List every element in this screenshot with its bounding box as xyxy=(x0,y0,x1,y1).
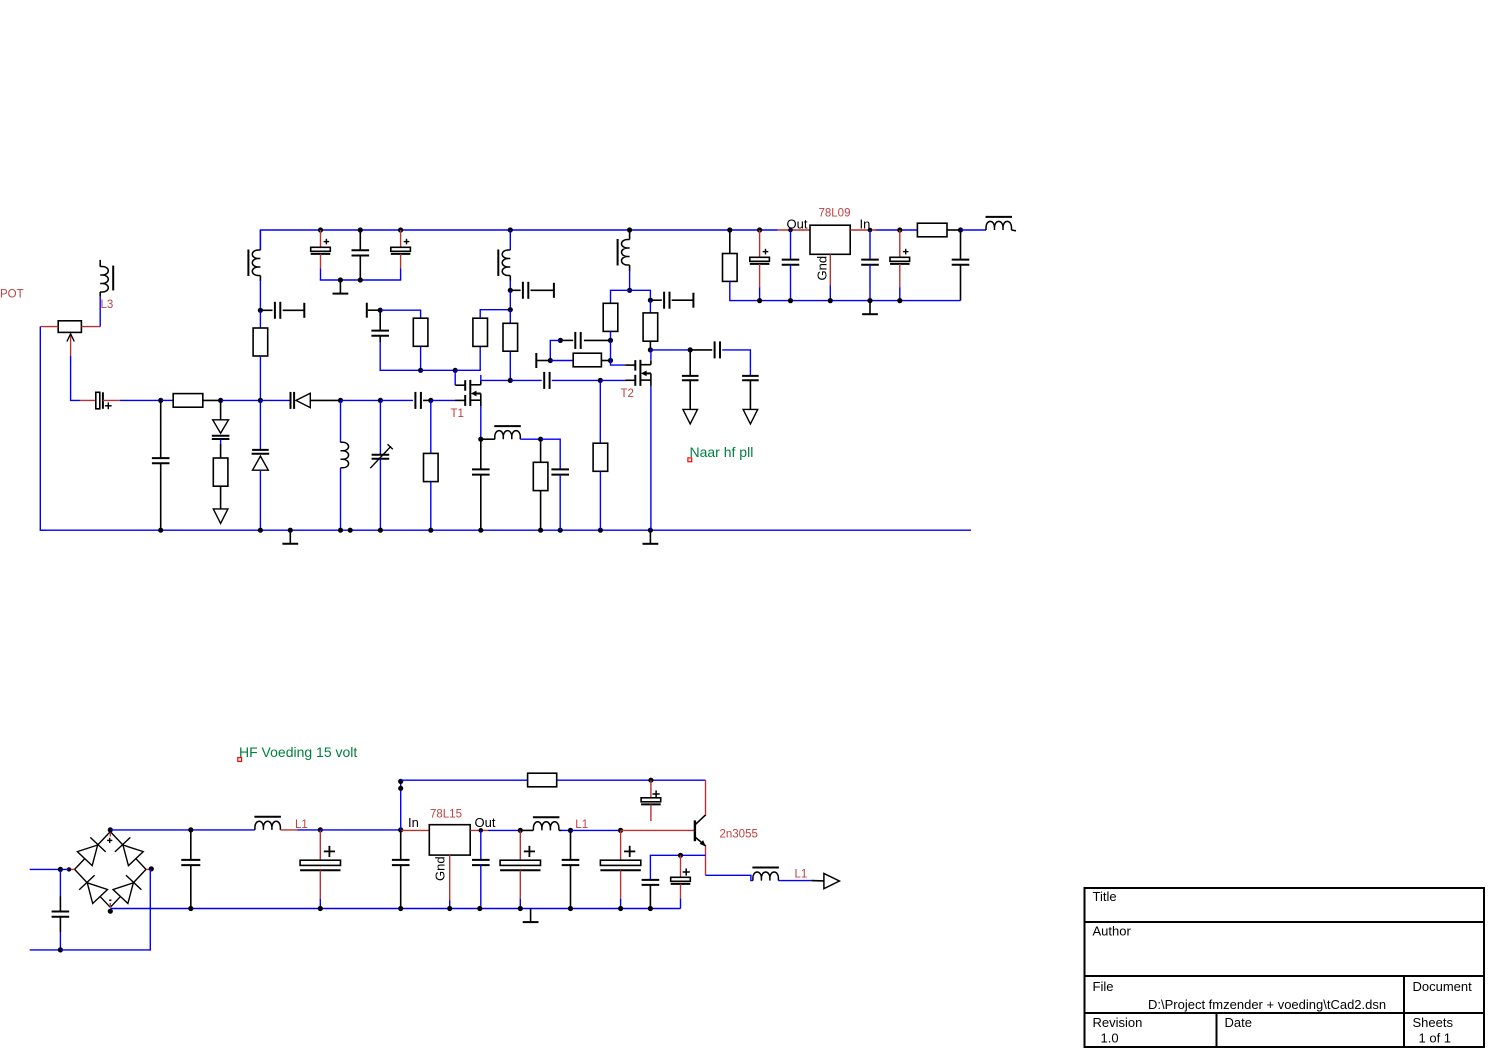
junction interstage / R bias2 xyxy=(598,378,603,383)
label L1 c xyxy=(795,869,808,881)
wire L osc bottom to node xyxy=(259,276,261,311)
junction T1 drain / R drain1 xyxy=(508,378,513,383)
junction regbottom / C reg4 xyxy=(897,298,902,303)
junction psu gnd / Gnd xyxy=(447,906,452,911)
lead C reg5 top xyxy=(960,230,962,260)
lead L osc top xyxy=(259,230,261,250)
junction bus / R osc xyxy=(258,398,263,403)
plus sign C outpsu xyxy=(683,868,690,875)
title block Document xyxy=(1413,979,1473,994)
lead C2 bottom xyxy=(359,256,361,281)
capacitor C probe1 xyxy=(275,302,280,319)
junction L1b / C f5 xyxy=(568,828,573,833)
inductor L1 (output choke) xyxy=(533,817,560,830)
junction bias2 bottom-left xyxy=(548,358,553,363)
wire pot-left long vertical xyxy=(40,327,46,531)
junction trio-bottom / ground xyxy=(338,277,343,282)
bottom ground rail xyxy=(40,529,971,531)
resistor R drain2 lower xyxy=(593,443,608,471)
lead C probe3 left xyxy=(650,299,661,301)
pin label Out psu xyxy=(475,815,496,830)
title block sheets value xyxy=(1419,1031,1452,1046)
inductor L choke T2 xyxy=(618,239,630,266)
junction bridge bottom xyxy=(108,909,113,914)
varicap diode D tune (horizontal) xyxy=(291,392,311,409)
wire In node up xyxy=(400,780,402,830)
lead C probe1 left xyxy=(260,309,272,311)
svg-text:1 of 1: 1 of 1 xyxy=(1419,1031,1452,1046)
junction psu gnd / C f5 xyxy=(568,906,573,911)
bridge minus mark xyxy=(109,899,111,901)
emitter output wire xyxy=(706,875,753,880)
output arrow xyxy=(824,873,840,888)
wire bus seg3 xyxy=(221,399,261,401)
lead C mains top xyxy=(59,869,61,911)
plus sign C f6 xyxy=(624,846,635,857)
junction source / L src xyxy=(478,437,483,442)
wire bus seg7 xyxy=(380,399,413,401)
psu ground rail xyxy=(110,908,680,910)
svg-text:Title: Title xyxy=(1093,889,1117,904)
title block frame xyxy=(1085,888,1485,1047)
wire T2 drain stub xyxy=(650,350,652,360)
label L1 b xyxy=(575,819,588,831)
svg-text:In: In xyxy=(408,815,419,830)
lead C trim top xyxy=(379,400,381,454)
junction bridge top xyxy=(108,827,113,832)
lead L3choke top xyxy=(629,230,631,240)
pin label Gnd (rotated) xyxy=(815,256,830,281)
lead C src1 top xyxy=(480,439,482,469)
resistor R drain T2 xyxy=(643,313,658,341)
junction bias2 node xyxy=(608,338,613,343)
lead C reg-elco1 bottom xyxy=(759,264,761,301)
junction bottom rail / R drain2 xyxy=(598,528,603,533)
lead elco byp bottom (dangling) xyxy=(650,804,652,821)
lead elco1 bottom + bend xyxy=(320,254,322,280)
lead R drain-T2 top xyxy=(649,300,651,313)
wire bias1 right-down xyxy=(380,310,420,318)
bridge pin tick right xyxy=(146,868,151,870)
svg-text:Document: Document xyxy=(1413,979,1473,994)
wire bias2 vertical xyxy=(610,340,612,360)
label L1 a xyxy=(295,819,308,831)
lead R osc top xyxy=(259,310,261,328)
lead R gate top xyxy=(430,400,432,453)
resistor R bias1a xyxy=(413,318,428,346)
svg-text:Gnd: Gnd xyxy=(815,256,830,281)
lead elco3 top xyxy=(400,230,402,247)
capacitor C tank xyxy=(152,458,170,463)
lead C out2 bottom xyxy=(749,380,751,409)
junction regbottom / gnd tee xyxy=(867,298,872,303)
electrolytic capacitor C reg4 xyxy=(890,257,910,264)
electrolytic capacitor C filter6 xyxy=(600,860,640,870)
ground tee psu xyxy=(523,909,539,923)
inductor L tank xyxy=(341,442,349,468)
lead R src bottom xyxy=(540,491,542,531)
electrolytic capacitor C reg1 xyxy=(750,257,770,264)
wire R bias1b top bend xyxy=(480,310,510,319)
junction gate1 node xyxy=(453,368,458,373)
junction +rail / C elco f2 xyxy=(318,827,323,832)
AC input wire 2 xyxy=(30,949,61,951)
junction trio-bottom / C2 xyxy=(358,277,363,282)
wire Out to C f3 node xyxy=(488,829,520,831)
wire L choke bottom xyxy=(629,265,631,290)
lead C f1 top xyxy=(190,830,192,860)
title block Title xyxy=(1093,889,1117,904)
lead R bias2b left xyxy=(550,360,573,362)
junction bus / L tank xyxy=(338,398,343,403)
lead elco f6 top xyxy=(620,830,622,860)
bridge diode D4 (- to AC2) xyxy=(110,869,146,907)
svg-text:L1: L1 xyxy=(795,869,808,881)
lead elco out top xyxy=(680,855,682,877)
junction Out / C f3 xyxy=(479,828,484,833)
capacitor C gate-couple xyxy=(415,392,421,409)
lead C src1 bottom xyxy=(480,475,482,531)
capacitor C mains xyxy=(52,912,70,917)
resistor R reg bleed xyxy=(723,254,738,282)
lead C f5 bottom xyxy=(570,865,572,908)
junction +rail / C f1 xyxy=(188,827,193,832)
wire C bias1 bottom bend xyxy=(380,336,420,371)
electrolytic capacitor C elco3 xyxy=(391,247,411,254)
lead C in-elco left xyxy=(80,399,96,401)
electrolytic capacitor C filter4 xyxy=(500,860,540,870)
svg-text:78L09: 78L09 xyxy=(819,208,851,220)
electrolytic capacitor C filter2 xyxy=(300,860,340,870)
plus sign elco1 xyxy=(324,239,330,245)
junction bias1 node xyxy=(378,308,383,313)
lead varicap leg top xyxy=(220,400,222,419)
lead C out1 top xyxy=(689,350,691,376)
wire T1 drain stub xyxy=(481,375,511,381)
lead C emitter bottom xyxy=(649,885,651,909)
reg2 Gnd lead xyxy=(449,855,451,908)
resistor R bypass xyxy=(528,773,557,787)
reg Gnd lead xyxy=(829,254,831,300)
resistor R gate xyxy=(424,453,439,481)
junction bus / C trim xyxy=(378,398,383,403)
svg-text:File: File xyxy=(1093,979,1114,994)
inductor L osc (drain choke) xyxy=(248,250,260,277)
capacitor C out2 xyxy=(742,376,759,380)
junction psu gnd / C emitter xyxy=(648,906,653,911)
bridge diode D2 (AC2 to +) xyxy=(110,832,146,870)
svg-text:L1: L1 xyxy=(575,819,588,831)
electrolytic capacitor C in (horizontal) xyxy=(96,392,103,409)
plus sign C in xyxy=(105,402,112,409)
lead R bias1a bottom xyxy=(420,346,422,370)
capacitor C filter3 xyxy=(472,860,490,865)
lead C f5 top xyxy=(570,830,572,860)
lead C reg-elco4 top xyxy=(899,230,901,257)
svg-text:Sheets: Sheets xyxy=(1413,1015,1454,1030)
resistor R bias2b xyxy=(573,353,601,367)
junction bias wire / R bias1a xyxy=(418,368,423,373)
resistor R source xyxy=(533,462,548,490)
junction bottom rail / R gate xyxy=(428,528,433,533)
lead C mains bottom xyxy=(59,917,61,950)
resistor R drain1 xyxy=(503,323,518,351)
title block Date xyxy=(1225,1015,1252,1030)
wire L2 bottom xyxy=(509,276,511,291)
net label HF Voeding 15 volt xyxy=(239,744,357,760)
lead terminal-junction xyxy=(368,309,380,311)
ground tee reg xyxy=(862,301,878,315)
lead D tank top xyxy=(259,400,261,450)
transistor T1 (dual-gate MOSFET) xyxy=(455,380,481,406)
capacitor C bias1 xyxy=(371,331,389,336)
wire drain line seg2 xyxy=(510,379,542,381)
lead C2 top xyxy=(359,230,361,250)
emitter red wire xyxy=(705,846,707,875)
wire AC2 to bridge right xyxy=(60,869,150,950)
reg2 In red wire xyxy=(401,829,430,831)
wire bus to C tank xyxy=(120,399,161,401)
lead to out arrow xyxy=(811,880,824,882)
wire bus to T1 gate2 xyxy=(431,399,456,401)
junction bus / C tank xyxy=(158,398,163,403)
lead R drain1 top xyxy=(509,310,511,324)
junction T2 drain out xyxy=(648,347,653,352)
lead C reg-elco4 bottom xyxy=(899,264,901,301)
wire out line xyxy=(650,349,690,351)
junction rail / C elco3 xyxy=(398,227,403,232)
junction / elco f6 xyxy=(618,828,623,833)
lead R drain2 top xyxy=(599,380,601,443)
svg-text:T2: T2 xyxy=(621,388,634,400)
junction AC1 / C mains xyxy=(58,867,63,872)
capacitor C2 xyxy=(352,250,370,255)
lead elco f6 bottom xyxy=(620,870,622,908)
capacitor C reg3 xyxy=(861,260,879,265)
junction rail / L3 choke xyxy=(627,227,632,232)
base red wire xyxy=(621,829,695,831)
capacitor C src2 xyxy=(551,469,569,474)
plus sign C f2 xyxy=(324,846,335,857)
wire src bend right xyxy=(541,439,561,469)
svg-text:D:\Project fmzender + voeding\: D:\Project fmzender + voeding\tCad2.dsn xyxy=(1148,997,1386,1012)
lead C bias2 left xyxy=(560,339,573,341)
lead L2 top xyxy=(509,230,511,250)
open terminal bias1 xyxy=(366,303,368,318)
plus sign C reg1 xyxy=(763,249,769,255)
title block file path xyxy=(1148,997,1386,1012)
lead C reg3 top xyxy=(869,230,871,260)
junction T2 drain node xyxy=(627,288,632,293)
junction bridge left small xyxy=(67,867,71,871)
lead C probe2 left xyxy=(510,289,520,291)
bridge pin tick top xyxy=(109,832,111,837)
svg-text:Gnd: Gnd xyxy=(433,856,448,881)
ground tee right rail xyxy=(643,530,659,544)
svg-text:HF Voeding 15 volt: HF Voeding 15 volt xyxy=(239,744,357,760)
pin label Gnd psu (rotated) xyxy=(433,856,448,881)
wire varicap-resistor xyxy=(220,439,222,458)
capacitor C filter1 xyxy=(181,860,200,865)
lead R drain-T2 bottom xyxy=(649,341,651,350)
bypass top wire xyxy=(401,779,528,781)
net flag square psu xyxy=(238,758,242,762)
lead C f1 bottom xyxy=(190,865,192,908)
lead C reg5 bottom bend xyxy=(960,265,962,301)
junction out / C reg2 xyxy=(788,228,793,233)
wire bus Ctank-Rser xyxy=(161,399,174,401)
capacitor C bias2 xyxy=(575,332,580,349)
inductor L source xyxy=(494,426,521,439)
svg-text:L3: L3 xyxy=(101,299,114,311)
collector red wire xyxy=(705,780,707,815)
open terminal probe1 xyxy=(303,303,305,318)
capacitor C emitter xyxy=(642,880,660,885)
junction bottom rail / L tank xyxy=(338,528,343,533)
lead elco f4 top xyxy=(519,830,521,860)
junction bus / R gate xyxy=(428,398,433,403)
lead L src left xyxy=(481,438,495,440)
junction L src / R src xyxy=(538,437,543,442)
label 78L09 xyxy=(819,208,851,220)
lead C out left xyxy=(690,349,712,351)
label L3 xyxy=(101,299,114,311)
title block Sheets xyxy=(1413,1015,1454,1030)
pot lead left xyxy=(40,326,58,328)
potentiometer POT body xyxy=(58,321,81,333)
capacitor C out1 xyxy=(682,376,699,380)
pot lead right xyxy=(81,326,100,328)
lead R drain1 bottom xyxy=(509,351,511,380)
lead elco f2 top xyxy=(319,830,321,860)
svg-text:1.0: 1.0 xyxy=(1101,1031,1119,1046)
junction bus / varicap leg xyxy=(218,398,223,403)
label 78L15 xyxy=(430,808,462,820)
lead elco byp top xyxy=(650,780,652,798)
lead C trim bottom xyxy=(379,459,381,530)
junction psu gnd / C f3 xyxy=(477,906,482,911)
junction rail / C reg elco4 xyxy=(897,227,902,232)
junction psu gnd / C In xyxy=(398,906,403,911)
lead R osc bottom xyxy=(259,356,261,400)
wire drain line seg3 xyxy=(552,379,601,381)
wire gate1 drop xyxy=(454,370,456,385)
label T1 xyxy=(451,408,464,420)
wire T2 gate1 path xyxy=(611,361,626,366)
junction rail / R reg xyxy=(727,227,732,232)
lead L1c right xyxy=(778,880,811,882)
capacitor C interstage xyxy=(544,372,549,389)
ground arrow under C out1 xyxy=(683,409,698,424)
wire bus seg4 xyxy=(260,399,290,401)
wire bias to R bias1b xyxy=(455,346,480,370)
bridge plus mark xyxy=(107,838,112,843)
junction rail / C elco1 xyxy=(318,227,323,232)
ground tee mid rail xyxy=(282,530,298,544)
lead C reg3 bottom xyxy=(869,265,871,301)
lead C reg2 bottom xyxy=(790,265,792,301)
pot wiper arrow xyxy=(67,334,74,357)
pin label In xyxy=(860,216,871,231)
lead elco f4 bottom xyxy=(519,870,521,908)
resistor R series xyxy=(173,394,203,408)
psu + rail left xyxy=(110,829,255,831)
junction bypass / elco byp xyxy=(648,778,653,783)
wire bus seg8 xyxy=(423,399,431,401)
wire bias2 left bend xyxy=(550,340,560,360)
net label Naar hf pll xyxy=(690,444,754,460)
transistor 2n3055 xyxy=(695,815,706,847)
svg-text:78L15: 78L15 xyxy=(430,808,462,820)
junction bottom rail / L tank b xyxy=(348,528,353,533)
inductor L2 choke xyxy=(498,250,510,277)
junction rail / C reg5 xyxy=(958,227,963,232)
junction drain / C probe3 xyxy=(648,298,653,303)
psu rail to In node xyxy=(320,829,400,831)
plus sign C byp xyxy=(653,790,660,797)
lead L1b right xyxy=(559,829,571,831)
lead C src2 bottom xyxy=(559,475,561,531)
junction regbottom / C reg1 xyxy=(757,298,762,303)
capacitor C reg2 xyxy=(782,260,800,265)
varicap diode D mod xyxy=(212,420,230,439)
lead R bias2b right xyxy=(601,360,610,362)
inductor L reg out xyxy=(986,217,1013,230)
wire wiper down-bend xyxy=(71,356,81,400)
transistor T2 (dual-gate MOSFET) xyxy=(625,360,651,386)
regulator 78L15 box xyxy=(429,825,470,855)
bridge pin tick bottom xyxy=(109,903,111,907)
lead L tank bottom xyxy=(340,468,342,530)
lead C in-elco right xyxy=(103,399,120,401)
svg-text:Naar hf pll: Naar hf pll xyxy=(690,444,754,460)
lead L reg right xyxy=(1012,229,1017,232)
svg-text:Revision: Revision xyxy=(1093,1015,1143,1030)
capacitor C probe3 xyxy=(664,292,669,309)
junction emitter / elco out xyxy=(678,853,683,858)
reg bottom rail xyxy=(760,300,961,302)
junction regbottom / Gnd xyxy=(828,298,833,303)
lead L tank top xyxy=(340,400,342,442)
lead C probe2 right xyxy=(531,289,554,291)
junction Out / elco f4 xyxy=(518,828,523,833)
lead terminal2 xyxy=(537,360,550,362)
junction In node xyxy=(398,827,403,832)
node L2 / C probe2 xyxy=(508,288,513,293)
junction rail / C2 xyxy=(358,227,363,232)
inductor L1 (RF output) xyxy=(752,868,779,881)
title block Revision xyxy=(1093,1015,1143,1030)
junction psu gnd / elco f2 xyxy=(318,906,323,911)
svg-text:Author: Author xyxy=(1093,924,1132,939)
bypass wire right xyxy=(557,779,706,781)
junction in / C reg3 xyxy=(868,228,873,233)
open terminal probe3 xyxy=(692,293,694,308)
resistor R mod xyxy=(213,458,228,486)
inductor L1 (input choke) xyxy=(254,817,281,830)
plus sign C f4 xyxy=(524,846,535,857)
wire T1 source down xyxy=(480,406,482,439)
capacitor C out couple xyxy=(715,341,720,358)
svg-text:POT: POT xyxy=(0,288,24,300)
varicap diode D tank (cathode up) xyxy=(252,450,270,470)
junction psu gnd / elco f4 xyxy=(518,906,523,911)
wire cap-trio bottom xyxy=(321,278,401,281)
title block revision value xyxy=(1101,1031,1119,1046)
lead elco out bottom xyxy=(680,884,682,909)
inductor L3 xyxy=(100,267,108,293)
lead C probe3 right xyxy=(672,299,693,301)
